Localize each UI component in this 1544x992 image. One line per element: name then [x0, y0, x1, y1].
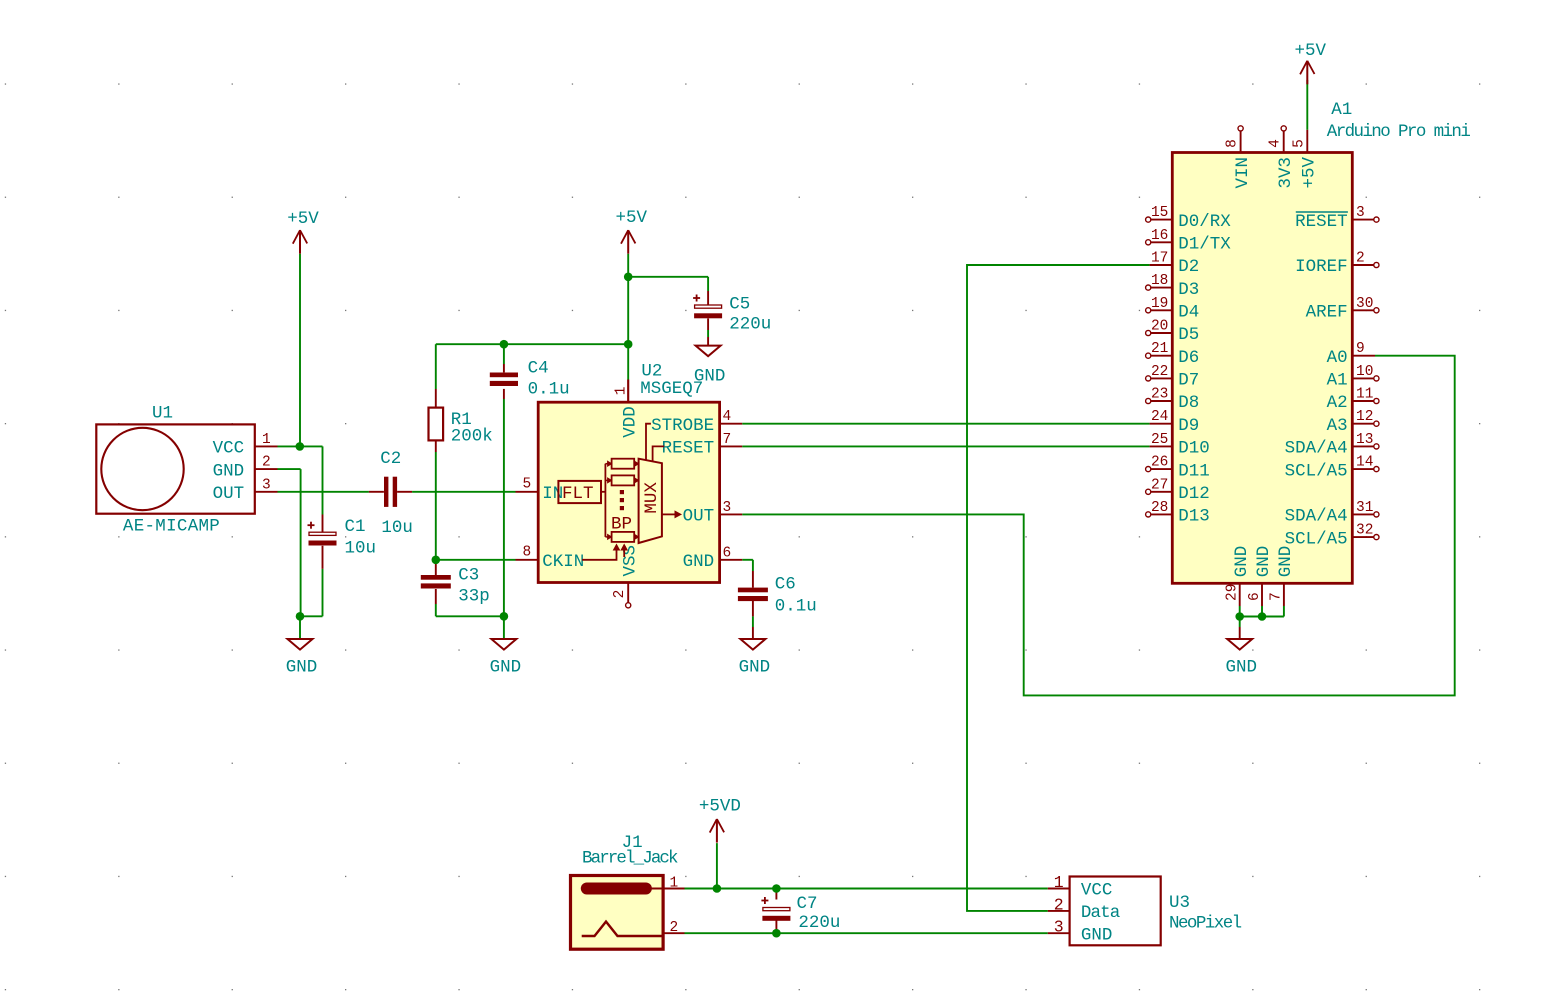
- svg-text:A2: A2: [1327, 393, 1348, 413]
- svg-text:Arduino Pro mini: Arduino Pro mini: [1327, 122, 1471, 142]
- svg-text:FLT: FLT: [562, 484, 594, 504]
- svg-text:VCC: VCC: [213, 439, 245, 459]
- svg-text:24: 24: [1151, 409, 1168, 425]
- svg-text:12: 12: [1356, 409, 1373, 425]
- svg-text:27: 27: [1151, 477, 1168, 493]
- svg-text:8: 8: [523, 544, 532, 560]
- svg-text:220u: 220u: [798, 913, 840, 933]
- svg-text:A1: A1: [1327, 371, 1348, 391]
- svg-text:200k: 200k: [451, 426, 493, 446]
- svg-text:32: 32: [1356, 523, 1373, 539]
- svg-text:D10: D10: [1178, 439, 1210, 459]
- svg-text:VDD: VDD: [620, 406, 640, 438]
- svg-text:220u: 220u: [729, 315, 771, 335]
- svg-text:Data: Data: [1081, 903, 1120, 923]
- svg-text:+5V: +5V: [1300, 156, 1320, 188]
- svg-text:D11: D11: [1178, 461, 1210, 481]
- svg-text:0.1u: 0.1u: [775, 596, 817, 616]
- svg-text:+5V: +5V: [287, 209, 319, 229]
- svg-text:D1/TX: D1/TX: [1178, 235, 1231, 255]
- svg-text:25: 25: [1151, 432, 1168, 448]
- svg-text:AE-MICAMP: AE-MICAMP: [123, 517, 220, 537]
- svg-text:+5VD: +5VD: [699, 797, 741, 817]
- svg-text:4: 4: [1268, 139, 1284, 148]
- svg-text:SCL/A5: SCL/A5: [1285, 461, 1348, 481]
- svg-text:AREF: AREF: [1306, 303, 1348, 323]
- svg-text:D13: D13: [1178, 507, 1210, 527]
- svg-text:A0: A0: [1327, 348, 1348, 368]
- svg-text:RESET: RESET: [1295, 212, 1348, 232]
- svg-text:D0/RX: D0/RX: [1178, 212, 1231, 232]
- svg-text:10u: 10u: [345, 539, 377, 559]
- svg-text:VIN: VIN: [1233, 157, 1253, 189]
- svg-text:GND: GND: [286, 658, 318, 678]
- svg-text:MUX: MUX: [642, 482, 662, 514]
- svg-text:21: 21: [1151, 341, 1168, 357]
- svg-text:0.1u: 0.1u: [528, 380, 570, 400]
- svg-text:VCC: VCC: [1081, 881, 1113, 901]
- svg-text:33p: 33p: [458, 586, 490, 606]
- svg-text:2: 2: [612, 590, 628, 599]
- svg-text:18: 18: [1151, 273, 1168, 289]
- svg-text:23: 23: [1151, 387, 1168, 403]
- svg-text:GND: GND: [1081, 925, 1113, 945]
- svg-text:3: 3: [1356, 205, 1365, 221]
- svg-text:C3: C3: [458, 565, 479, 585]
- svg-text:+5V: +5V: [615, 208, 647, 228]
- svg-text:GND: GND: [213, 461, 245, 481]
- svg-text:C5: C5: [729, 295, 750, 315]
- svg-text:NeoPixel: NeoPixel: [1169, 913, 1242, 933]
- svg-text:D12: D12: [1178, 484, 1210, 504]
- svg-text:20: 20: [1151, 319, 1168, 335]
- svg-text:MSGEQ7: MSGEQ7: [640, 379, 703, 399]
- svg-text:6: 6: [723, 545, 732, 561]
- svg-text:A1: A1: [1331, 100, 1352, 120]
- svg-text:IOREF: IOREF: [1295, 257, 1348, 277]
- svg-text:Barrel_Jack: Barrel_Jack: [582, 849, 678, 869]
- svg-text:14: 14: [1356, 455, 1373, 471]
- svg-text:8: 8: [1225, 139, 1241, 148]
- svg-text:1: 1: [1054, 873, 1064, 892]
- svg-text:GND: GND: [1276, 546, 1296, 578]
- svg-text:10u: 10u: [381, 518, 413, 538]
- svg-text:GND: GND: [1225, 658, 1257, 678]
- svg-text:10: 10: [1356, 364, 1373, 380]
- svg-text:OUT: OUT: [213, 484, 245, 504]
- svg-text:2: 2: [669, 920, 678, 936]
- svg-text:CKIN: CKIN: [542, 552, 584, 572]
- svg-text:2: 2: [262, 455, 271, 471]
- svg-text:D7: D7: [1178, 371, 1199, 391]
- svg-text:C2: C2: [380, 449, 401, 469]
- svg-text:GND: GND: [683, 552, 715, 572]
- svg-text:1: 1: [669, 876, 678, 892]
- svg-text:13: 13: [1356, 432, 1373, 448]
- svg-text:U3: U3: [1169, 893, 1190, 913]
- svg-text:SDA/A4: SDA/A4: [1285, 507, 1348, 527]
- svg-text:16: 16: [1151, 228, 1168, 244]
- svg-text:15: 15: [1151, 205, 1168, 221]
- svg-text:BP: BP: [611, 515, 632, 535]
- svg-text:30: 30: [1356, 296, 1373, 312]
- svg-text:D3: D3: [1178, 280, 1199, 300]
- svg-text:17: 17: [1151, 251, 1168, 267]
- svg-text:29: 29: [1225, 584, 1241, 601]
- svg-text:2: 2: [1054, 895, 1064, 914]
- svg-text:U1: U1: [152, 404, 173, 424]
- svg-text:D5: D5: [1178, 325, 1199, 345]
- svg-text:3: 3: [262, 477, 271, 493]
- svg-text:9: 9: [1356, 341, 1365, 357]
- svg-text:19: 19: [1151, 296, 1168, 312]
- svg-text:D4: D4: [1178, 303, 1199, 323]
- svg-text:IN: IN: [542, 484, 563, 504]
- svg-text:11: 11: [1356, 387, 1373, 403]
- svg-text:3V3: 3V3: [1276, 157, 1296, 189]
- svg-text:1: 1: [262, 432, 271, 448]
- svg-text:2: 2: [1356, 251, 1365, 267]
- svg-text:C6: C6: [775, 574, 796, 594]
- svg-text:1: 1: [614, 387, 630, 396]
- svg-text:31: 31: [1356, 500, 1373, 516]
- svg-text:GND: GND: [1254, 546, 1274, 578]
- svg-text:26: 26: [1151, 455, 1168, 471]
- svg-text:GND: GND: [1232, 546, 1252, 578]
- svg-text:5: 5: [523, 476, 532, 492]
- svg-text:28: 28: [1151, 500, 1168, 516]
- svg-text:GND: GND: [739, 658, 771, 678]
- svg-text:4: 4: [723, 409, 732, 425]
- svg-text:D6: D6: [1178, 348, 1199, 368]
- svg-text:+5V: +5V: [1295, 41, 1327, 61]
- svg-text:3: 3: [1054, 918, 1064, 937]
- svg-text:C4: C4: [528, 358, 549, 378]
- svg-text:D8: D8: [1178, 393, 1199, 413]
- svg-text:3: 3: [723, 500, 732, 516]
- svg-text:D2: D2: [1178, 257, 1199, 277]
- svg-text:RESET: RESET: [662, 439, 715, 459]
- svg-text:22: 22: [1151, 364, 1168, 380]
- svg-text:C7: C7: [797, 894, 818, 914]
- svg-text:OUT: OUT: [683, 507, 715, 527]
- svg-text:7: 7: [1269, 592, 1285, 601]
- svg-text:GND: GND: [490, 658, 522, 678]
- svg-text:STROBE: STROBE: [651, 416, 714, 436]
- svg-text:C1: C1: [345, 517, 366, 537]
- svg-text:A3: A3: [1327, 416, 1348, 436]
- svg-text:SDA/A4: SDA/A4: [1285, 439, 1348, 459]
- svg-text:7: 7: [723, 432, 732, 448]
- svg-text:6: 6: [1247, 592, 1263, 601]
- svg-text:5: 5: [1291, 139, 1307, 148]
- svg-text:D9: D9: [1178, 416, 1199, 436]
